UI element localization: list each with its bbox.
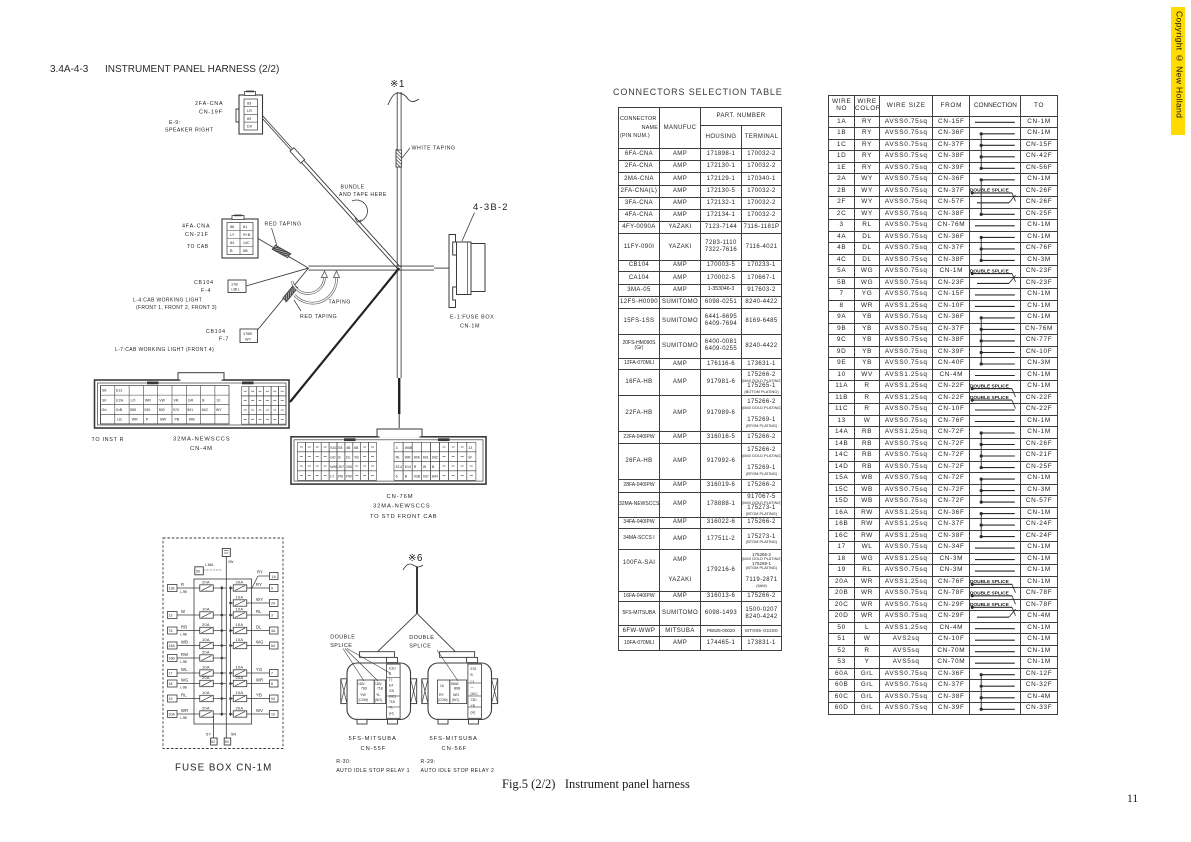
svg-text:5FS-MITSUBA: 5FS-MITSUBA (349, 736, 397, 742)
svg-text:7: 7 (271, 672, 273, 676)
svg-text:CN-55F: CN-55F (361, 746, 387, 752)
svg-text:DOUBLE SPLICE: DOUBLE SPLICE (970, 268, 1009, 274)
svg-text:GN: GN (389, 689, 395, 693)
svg-text:76: 76 (169, 629, 173, 633)
svg-text:52: 52 (211, 740, 215, 744)
svg-text:WV: WV (256, 708, 263, 713)
svg-text:20A: 20A (202, 622, 210, 627)
svg-text:FUSE BOX CN-1M: FUSE BOX CN-1M (175, 763, 272, 774)
svg-text:(H): (H) (471, 710, 476, 714)
connector stub 50 (L 86L) (195, 563, 222, 575)
svg-text:RB: RB (181, 624, 187, 629)
svg-text:WG: WG (181, 677, 189, 682)
svg-text:20A: 20A (236, 579, 244, 584)
connector stub top (2W) (222, 549, 234, 565)
svg-text:5Y: 5Y (206, 732, 211, 737)
svg-text:20A: 20A (202, 675, 210, 680)
fuse 10A output WG to 54 (229, 637, 278, 649)
fuse 20A row 16B (RW) (168, 649, 227, 663)
svg-text:YB: YB (256, 692, 262, 697)
svg-text:73D: 73D (471, 698, 478, 702)
svg-text:※6: ※6 (408, 553, 423, 564)
svg-text:(H): (H) (389, 711, 394, 715)
fuse link CB104 F-7 (L-7 cab working light front 4) (115, 268, 309, 353)
fuse output RY to 1A (247, 570, 278, 589)
fuse 10A output RL to 3 (229, 606, 278, 618)
svg-text:CN-56F: CN-56F (442, 746, 468, 752)
svg-text:(COM): (COM) (438, 698, 448, 702)
svg-text:RW: RW (181, 652, 188, 657)
svg-text:RL: RL (181, 692, 187, 697)
svg-text:13: 13 (169, 614, 173, 618)
connector stubs bottom 52 / 53 (206, 732, 237, 746)
svg-text:16: 16 (440, 684, 444, 688)
node ※1 break symbol (388, 79, 419, 105)
svg-text:L 86L: L 86L (205, 563, 214, 567)
svg-text:WL: WL (181, 667, 188, 672)
svg-text:5FS-MITSUBA: 5FS-MITSUBA (430, 736, 478, 742)
svg-text:L-9B: L-9B (180, 685, 187, 689)
fuse 10A row 17 (WL) (168, 664, 227, 676)
connector 2FA-CNA CN-19F (E-9 speaker right) (165, 91, 263, 134)
connector E-1 fuse box CN-1M (side view) (449, 202, 509, 330)
relay R-29 CN-56F auto idle stop relay 2 (421, 652, 498, 774)
svg-text:AUTO IDLE STOP RELAY 2: AUTO IDLE STOP RELAY 2 (421, 768, 495, 774)
fuse box CN-1M outline (163, 538, 283, 749)
svg-text:DOUBLE: DOUBLE (330, 635, 355, 641)
node ※6 harness branch (378, 553, 456, 652)
svg-text:1A: 1A (272, 575, 277, 579)
svg-text:54: 54 (271, 644, 275, 648)
connector CN-76M 32MA-NEWSCCS (to std front cab) (291, 429, 486, 520)
svg-text:(NC): (NC) (389, 695, 396, 699)
svg-text:20A: 20A (202, 705, 210, 710)
svg-text:11B/: 11B/ (375, 682, 382, 686)
svg-text:WR: WR (256, 677, 263, 682)
svg-text:11B/: 11B/ (358, 682, 365, 686)
svg-text:10A: 10A (202, 606, 210, 611)
svg-text:RY: RY (439, 693, 445, 697)
svg-text:10: 10 (271, 713, 275, 717)
svg-text:SPLICE: SPLICE (330, 643, 352, 649)
svg-text:YG: YG (256, 667, 262, 672)
svg-text:10A: 10A (236, 690, 244, 695)
taping arcs label (292, 271, 351, 306)
svg-text:17: 17 (169, 672, 173, 676)
svg-text:9: 9 (271, 587, 273, 591)
svg-text:20A: 20A (236, 675, 244, 680)
svg-text:DOUBLE SPLICE: DOUBLE SPLICE (970, 383, 1009, 389)
fuse 20A row 18 (WG) (168, 675, 227, 689)
fuse box caption (175, 763, 272, 774)
svg-text:(NO): (NO) (375, 698, 382, 702)
svg-text:24: 24 (271, 602, 275, 606)
svg-text:DOUBLE SPLICE: DOUBLE SPLICE (970, 187, 1009, 193)
svg-text:RL: RL (256, 609, 262, 614)
svg-text:DOUBLE SPLICE: DOUBLE SPLICE (970, 579, 1009, 585)
svg-text:71B: 71B (389, 700, 396, 704)
svg-text:10A: 10A (202, 637, 210, 642)
fuse 20A output WR to 8 (229, 675, 278, 687)
fuse 10A output YG to 7 (229, 664, 278, 676)
connector 4FA-CNA CN-21F (to cab) (182, 215, 258, 258)
svg-text:(COM): (COM) (359, 698, 369, 702)
svg-text:B6B: B6B (454, 687, 461, 691)
wire W6 trunk to CN-4M connector (290, 268, 399, 402)
svg-text:WB: WB (181, 639, 188, 644)
svg-text:11B: 11B (169, 587, 176, 591)
bus wires inside fuse box (214, 556, 231, 738)
svg-text:DL: DL (256, 624, 262, 629)
svg-text:DOUBLE: DOUBLE (409, 635, 434, 641)
svg-text:4A: 4A (271, 629, 276, 633)
white taping sleeve (396, 146, 456, 169)
connection column wires (981, 133, 983, 167)
svg-text:50: 50 (196, 570, 200, 574)
svg-text:71B: 71B (377, 687, 384, 691)
svg-text:R: R (181, 582, 184, 587)
wire W3 4FA-CNA to junction with red taping (258, 222, 309, 269)
svg-text:DOUBLE SPLICE: DOUBLE SPLICE (970, 394, 1009, 400)
fuse 10A output YB to 94 (229, 690, 278, 702)
svg-text:WG: WG (453, 693, 459, 697)
svg-text:94: 94 (271, 697, 275, 701)
fuse 20A row 20A (WR) (168, 705, 227, 719)
fuse 20A output WV to 10 (229, 705, 278, 717)
wire W-main vertical harness trunk (397, 92, 401, 428)
fuse link CB104 F-4 (L-4 cab working light) (133, 268, 309, 311)
label bundle and tape here with arc arrow (339, 185, 387, 223)
svg-text:10A: 10A (202, 664, 210, 669)
svg-text:10A: 10A (236, 622, 244, 627)
svg-text:(NC): (NC) (471, 692, 478, 696)
svg-text:AUTO IDLE STOP RELAY 1: AUTO IDLE STOP RELAY 1 (336, 768, 410, 774)
svg-text:SPLICE: SPLICE (409, 643, 431, 649)
svg-text:10A: 10A (236, 594, 244, 599)
svg-text:E31/: E31/ (389, 667, 396, 671)
fuse 20A output RY to 9 (229, 579, 278, 591)
svg-text:3: 3 (271, 614, 273, 618)
red taping sleeve on W5 (282, 284, 337, 320)
svg-text:20A: 20A (169, 713, 176, 717)
svg-text:8: 8 (271, 682, 273, 686)
svg-text:18: 18 (169, 682, 173, 686)
svg-text:L-9B: L-9B (180, 716, 187, 720)
svg-text:20A: 20A (202, 579, 210, 584)
svg-text:10A: 10A (236, 606, 244, 611)
svg-text:15A: 15A (169, 644, 176, 648)
svg-text:10A: 10A (236, 664, 244, 669)
fuse 10A output WY to 24 (229, 594, 278, 606)
fuse 20A row 11B (R) (168, 579, 227, 593)
svg-text:20A: 20A (236, 705, 244, 710)
svg-text:WG: WG (256, 639, 264, 644)
fuse 10A row 19 (RL) (168, 690, 227, 702)
svg-text:L-9B: L-9B (180, 590, 187, 594)
svg-text:WR: WR (181, 708, 188, 713)
svg-text:20A: 20A (202, 649, 210, 654)
svg-text:DOUBLE SPLICE: DOUBLE SPLICE (970, 602, 1009, 608)
fuse 10A output DL to 4A (229, 622, 278, 634)
svg-text:16B: 16B (169, 657, 176, 661)
fuse 20A row 76 (RB) (168, 622, 227, 636)
svg-text:2W: 2W (228, 560, 234, 564)
svg-text:WY: WY (256, 597, 263, 602)
svg-text:W: W (181, 609, 185, 614)
svg-text:(-): (-) (389, 678, 392, 682)
svg-text:DOUBLE SPLICE: DOUBLE SPLICE (970, 590, 1009, 596)
svg-text:YL: YL (376, 693, 380, 697)
double splice labels (330, 635, 458, 682)
svg-text:5R: 5R (231, 732, 237, 737)
svg-text:YL: YL (389, 706, 393, 710)
fuse 10A row 15A (WB) (168, 637, 227, 649)
svg-text:W66/: W66/ (451, 682, 459, 686)
svg-text:R-30:: R-30: (336, 759, 351, 765)
svg-text:10A: 10A (236, 637, 244, 642)
svg-text:RY: RY (257, 570, 263, 575)
svg-text:R-29:: R-29: (421, 759, 436, 765)
svg-text:76D: 76D (361, 687, 368, 691)
connector CN-4M 32MA-NEWSCCS (to inst R) (92, 373, 290, 452)
svg-text:10A: 10A (202, 690, 210, 695)
wire W2 diagonal 2FA-CNA to junction (261, 115, 401, 269)
svg-text:RY: RY (256, 582, 262, 587)
fuse 10A row 13 (W) (168, 606, 227, 618)
svg-text:E31: E31 (471, 667, 477, 671)
svg-text:53: 53 (225, 740, 229, 744)
bundle sleeve on W2 (290, 148, 305, 163)
svg-text:19: 19 (169, 697, 173, 701)
svg-text:L-9B: L-9B (180, 660, 187, 664)
relay R-30 CN-55F auto idle stop relay 1 (336, 652, 417, 774)
svg-text:YW: YW (360, 693, 366, 697)
svg-text:(NO): (NO) (452, 698, 459, 702)
svg-text:L-9B: L-9B (180, 632, 187, 636)
wire W4 horizontal trunk junction to E-1 fuse box (309, 266, 450, 270)
svg-text:E4: E4 (389, 683, 393, 687)
